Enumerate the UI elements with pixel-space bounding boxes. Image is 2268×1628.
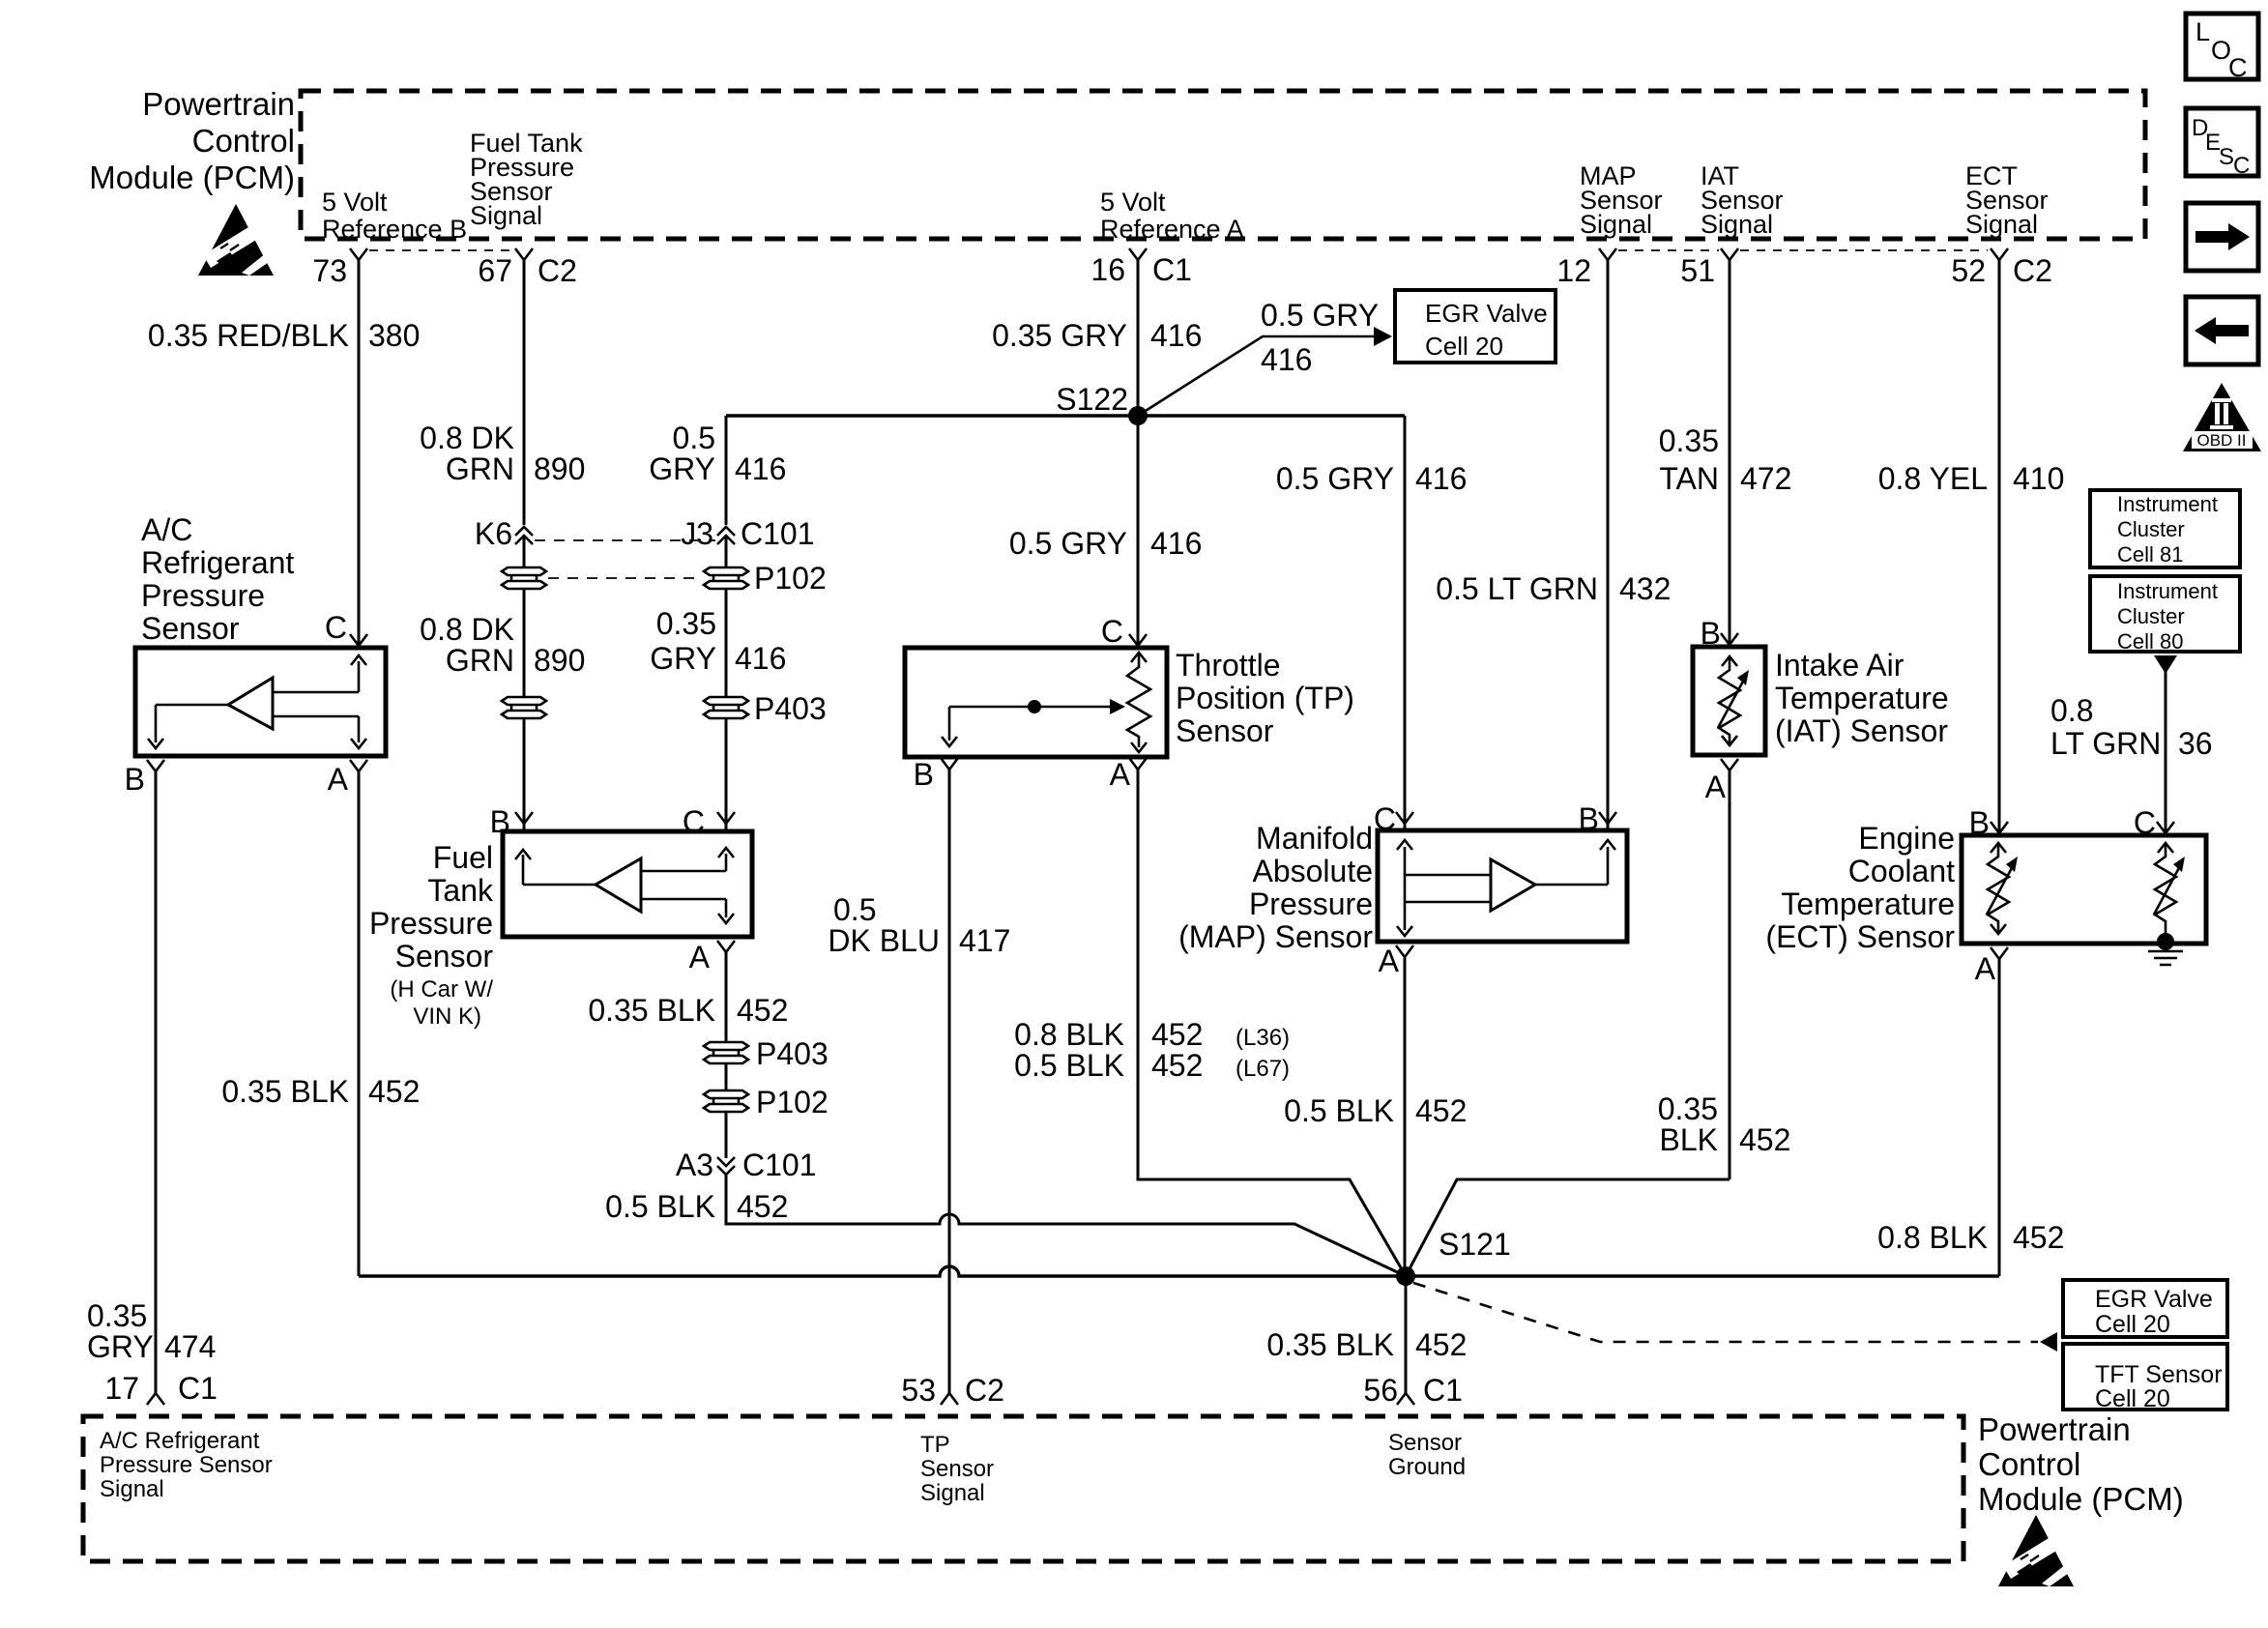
- ESD sensitivity symbol top: [198, 204, 274, 276]
- wire 416 (0.35 GRY, pin 16 to S122): [1137, 260, 1140, 416]
- TP sensor pin C: [1101, 614, 1147, 649]
- svg-text:416: 416: [1150, 318, 1202, 353]
- svg-text:Sensor: Sensor: [141, 611, 240, 646]
- splice P102 (right half): [704, 561, 827, 596]
- EGR Valve Cell 20 box (bottom): [2063, 1280, 2227, 1338]
- svg-text:452: 452: [1415, 1327, 1467, 1362]
- svg-text:Throttle: Throttle: [1176, 648, 1280, 683]
- svg-text:B: B: [1969, 805, 1990, 840]
- svg-text:0.5 BLK: 0.5 BLK: [605, 1189, 715, 1224]
- svg-text:53: 53: [901, 1373, 936, 1408]
- svg-text:5 Volt: 5 Volt: [1100, 188, 1166, 217]
- label: Throttle Position (TP) Sensor: [1176, 648, 1354, 748]
- PCM connector block (bottom, dashed): [83, 1416, 1963, 1561]
- value label 0.35 TAN 472: [1659, 423, 1792, 496]
- svg-text:Instrument: Instrument: [2117, 492, 2218, 516]
- svg-text:17: 17: [104, 1371, 139, 1406]
- wire 452 (0.5 BLK, MAP A to S121): [1404, 957, 1407, 1276]
- svg-text:452: 452: [737, 993, 788, 1028]
- svg-text:Pressure: Pressure: [1249, 887, 1373, 921]
- ESD sensitivity symbol bottom: [1998, 1515, 2074, 1586]
- net label: Sensor Ground: [1388, 1430, 1466, 1480]
- TFT Sensor Cell 20 box: [2063, 1344, 2227, 1412]
- ECT sensor pin C: [2134, 805, 2174, 840]
- Instrument Cluster Cell 81 box: [2090, 490, 2240, 567]
- svg-text:Sensor: Sensor: [920, 1456, 994, 1482]
- svg-text:0.8 BLK: 0.8 BLK: [1877, 1220, 1988, 1255]
- pin 52 C2: [1951, 248, 2052, 288]
- label: Intake Air Temperature (IAT) Sensor: [1775, 648, 1949, 748]
- svg-text:Signal: Signal: [1965, 210, 2038, 239]
- svg-text:452: 452: [1739, 1122, 1790, 1157]
- wire 416 (0.35 GRY) to P403: [725, 589, 728, 697]
- svg-text:73: 73: [312, 253, 347, 288]
- svg-text:Temperature: Temperature: [1775, 681, 1949, 715]
- label: Fuel Tank Pressure Sensor (H Car W/ VIN K): [369, 840, 494, 1030]
- value label 0.8 DK GRN 890 (upper): [420, 421, 585, 486]
- svg-text:C1: C1: [178, 1371, 218, 1406]
- svg-text:C1: C1: [1152, 252, 1192, 287]
- svg-text:B: B: [914, 757, 934, 792]
- svg-text:0.8 BLK: 0.8 BLK: [1014, 1017, 1124, 1052]
- splice S122: [1056, 382, 1148, 425]
- value label 0.35 RED/BLK 380: [148, 318, 421, 353]
- label: A/C Refrigerant Pressure Sensor: [141, 512, 294, 646]
- svg-text:C101: C101: [741, 516, 815, 551]
- wire 452 (0.35 BLK, A/C A down to ground bus): [358, 771, 361, 1276]
- pin 17 C1 (bottom PCM): [104, 1371, 218, 1406]
- svg-text:B: B: [1701, 616, 1721, 651]
- svg-text:P102: P102: [754, 561, 827, 596]
- wire 890 below K6: [523, 538, 526, 567]
- value label 0.5 GRY 416 (right drop): [1276, 461, 1468, 496]
- dashed tie P102 pair: [548, 577, 702, 579]
- svg-text:Refrigerant: Refrigerant: [141, 545, 294, 580]
- label: Powertrain Control Module (PCM) bottom: [1978, 1411, 2184, 1517]
- sidebar LOC button: [2186, 14, 2258, 82]
- svg-text:Ground: Ground: [1388, 1454, 1466, 1480]
- A/C sensor internal amplifier: [148, 655, 366, 748]
- value label 0.35 BLK 452 (sensor ground): [1266, 1327, 1467, 1362]
- value label 0.8 LT GRN 36: [2050, 693, 2213, 761]
- value label 0.35 GRY 474: [87, 1298, 216, 1364]
- svg-text:EGR Valve: EGR Valve: [2095, 1286, 2213, 1313]
- connector C101 terminal A3: [676, 1148, 817, 1182]
- label: Manifold Absolute Pressure (MAP) Sensor: [1178, 821, 1373, 954]
- net label: IAT Sensor Signal: [1701, 161, 1784, 239]
- connector C101 terminal J3: [681, 516, 814, 551]
- svg-text:Signal: Signal: [1701, 210, 1773, 239]
- svg-text:A: A: [1705, 770, 1727, 804]
- svg-text:0.5 LT GRN: 0.5 LT GRN: [1436, 571, 1598, 606]
- Engine Coolant Temperature (ECT) Sensor (component box): [1962, 835, 2206, 944]
- svg-text:Signal: Signal: [470, 201, 542, 230]
- Instrument Cluster Cell 80 box: [2090, 576, 2240, 654]
- svg-text:474: 474: [164, 1329, 216, 1364]
- svg-text:Powertrain: Powertrain: [1978, 1411, 2131, 1447]
- svg-text:VIN K): VIN K): [413, 1003, 481, 1030]
- svg-text:Cell 80: Cell 80: [2117, 629, 2183, 654]
- svg-text:Coolant: Coolant: [1848, 854, 1955, 888]
- svg-text:Intake Air: Intake Air: [1775, 648, 1905, 683]
- svg-text:416: 416: [735, 451, 786, 486]
- svg-text:A: A: [1379, 944, 1400, 978]
- svg-text:A: A: [328, 762, 349, 797]
- svg-text:GRY: GRY: [87, 1329, 154, 1364]
- svg-text:LT GRN: LT GRN: [2050, 726, 2161, 761]
- wire 472 (0.35 TAN, pin 51 to IAT B): [1729, 260, 1731, 647]
- ECT sensor pin B: [1969, 805, 2008, 840]
- svg-text:Pressure Sensor: Pressure Sensor: [100, 1452, 273, 1478]
- svg-text:C2: C2: [2013, 253, 2052, 288]
- wire 890 upper (0.8 DK GRN, pin 67 to C101 K6): [523, 260, 526, 525]
- svg-text:P403: P403: [756, 1036, 829, 1071]
- svg-text:0.5 GRY: 0.5 GRY: [1276, 461, 1394, 496]
- svg-text:0.35: 0.35: [1659, 423, 1719, 458]
- svg-text:C2: C2: [965, 1373, 1004, 1408]
- MAP sensor pin A: [1379, 944, 1413, 978]
- svg-text:Manifold: Manifold: [1256, 821, 1373, 856]
- svg-text:Sensor: Sensor: [1388, 1430, 1462, 1456]
- svg-text:B: B: [125, 762, 145, 797]
- svg-text:Engine: Engine: [1858, 821, 1955, 856]
- svg-text:C2: C2: [538, 253, 577, 288]
- svg-text:GRN: GRN: [446, 643, 514, 678]
- net label: TP Sensor Signal: [920, 1432, 994, 1506]
- value label 0.5 GRY 416 (upper left): [649, 421, 786, 486]
- svg-text:GRY: GRY: [649, 451, 715, 486]
- svg-text:416: 416: [735, 641, 786, 676]
- value label 0.8 BLK 452 (L36): [1014, 1017, 1290, 1052]
- svg-text:0.5 BLK: 0.5 BLK: [1284, 1093, 1394, 1128]
- MAP sensor pin C: [1374, 801, 1413, 836]
- EGR Valve Cell 20 box (top): [1395, 290, 1556, 363]
- svg-text:0.5 BLK: 0.5 BLK: [1014, 1048, 1124, 1083]
- value label 0.8 BLK 452 (ECT): [1877, 1220, 2064, 1255]
- svg-text:DK BLU: DK BLU: [828, 923, 940, 958]
- svg-text:K6: K6: [475, 516, 512, 551]
- value label 0.35 GRY 416: [992, 318, 1202, 353]
- pin 51: [1680, 248, 1738, 288]
- svg-text:GRY: GRY: [650, 641, 716, 676]
- svg-text:C: C: [683, 804, 705, 839]
- MAP sensor internal amplifier: [1397, 840, 1615, 936]
- pin 56 C1 (bottom PCM): [1363, 1373, 1463, 1408]
- svg-text:Cell 20: Cell 20: [2095, 1311, 2170, 1338]
- svg-text:C1: C1: [1423, 1373, 1463, 1408]
- svg-text:OBD II: OBD II: [2196, 431, 2246, 450]
- svg-text:Control: Control: [1978, 1446, 2080, 1482]
- Fuel tank sensor internal amplifier: [515, 848, 734, 923]
- svg-text:L: L: [2195, 17, 2210, 46]
- value label 0.5 LT GRN 432: [1436, 571, 1671, 606]
- Intake Air Temperature (IAT) Sensor (component box): [1693, 647, 1765, 755]
- pin 12: [1556, 248, 1616, 288]
- wire 416 bus S122 horizontal: [726, 414, 1405, 417]
- PCM connector block (top, dashed): [301, 91, 2145, 239]
- svg-text:Sensor: Sensor: [1176, 713, 1274, 748]
- svg-text:EGR Valve: EGR Valve: [1425, 299, 1548, 328]
- svg-text:A: A: [689, 940, 711, 974]
- svg-text:GRN: GRN: [446, 451, 514, 486]
- svg-text:C: C: [2134, 805, 2156, 840]
- svg-text:TAN: TAN: [1659, 461, 1719, 496]
- svg-text:0.5 GRY: 0.5 GRY: [1009, 526, 1127, 561]
- wire 452 (0.35 BLK, S121 to pin 56): [1405, 1276, 1408, 1393]
- svg-text:51: 51: [1680, 253, 1715, 288]
- svg-text:0.35 BLK: 0.35 BLK: [588, 993, 715, 1028]
- value label 0.5 DK BLU 417: [828, 892, 1010, 958]
- value label 0.35 BLK 452 (A/C): [221, 1074, 420, 1109]
- svg-text:Cell 20: Cell 20: [2095, 1385, 2170, 1412]
- svg-text:A/C Refrigerant: A/C Refrigerant: [100, 1428, 260, 1454]
- svg-text:36: 36: [2178, 726, 2213, 761]
- svg-text:A/C: A/C: [141, 512, 192, 547]
- wire 380 (0.35 RED/BLK, pin 73 to A/C sensor C): [358, 260, 361, 648]
- wire 432 (0.5 LT GRN, pin 12 to MAP B): [1607, 260, 1610, 830]
- svg-text:416: 416: [1150, 526, 1202, 561]
- svg-text:Pressure: Pressure: [141, 578, 265, 613]
- connector C101 terminal K6: [475, 516, 533, 551]
- ECT internal thermistor (B side): [1987, 843, 2018, 934]
- svg-text:TFT Sensor: TFT Sensor: [2095, 1361, 2223, 1388]
- value label 0.5 BLK 452 (L67): [1014, 1048, 1290, 1083]
- svg-text:0.35 BLK: 0.35 BLK: [221, 1074, 349, 1109]
- svg-text:(IAT) Sensor: (IAT) Sensor: [1775, 713, 1948, 748]
- svg-text:417: 417: [959, 923, 1010, 958]
- pin 67 C2: [478, 248, 577, 288]
- svg-text:(L36): (L36): [1236, 1025, 1290, 1051]
- svg-text:0.35 RED/BLK: 0.35 RED/BLK: [148, 318, 349, 353]
- svg-text:0.5: 0.5: [833, 892, 876, 927]
- Fuel tank sensor pin B: [490, 804, 533, 839]
- svg-text:416: 416: [1415, 461, 1467, 496]
- svg-text:0.8 YEL: 0.8 YEL: [1878, 461, 1988, 496]
- wire 452 (0.5 BLK) A3 branch to S121: [726, 1173, 1406, 1276]
- svg-text:TP: TP: [920, 1432, 950, 1458]
- IAT sensor internal thermistor: [1718, 656, 1749, 745]
- wire 474 (0.35 GRY, A/C B to pin 17): [155, 771, 158, 1393]
- value label 0.35 BLK 452 (fuel tank): [588, 993, 788, 1028]
- svg-text:Sensor: Sensor: [395, 939, 494, 974]
- svg-text:Instrument: Instrument: [2117, 579, 2218, 603]
- svg-text:380: 380: [368, 318, 420, 353]
- svg-text:452: 452: [1151, 1048, 1203, 1083]
- svg-text:452: 452: [2013, 1220, 2064, 1255]
- wire 452 (0.35 BLK, fuel tank A to C101 A3): [725, 952, 728, 1042]
- svg-text:452: 452: [737, 1189, 788, 1224]
- TP sensor pin A: [1110, 757, 1147, 792]
- net label: 5 Volt Reference B: [322, 188, 467, 244]
- svg-text:Cluster: Cluster: [2117, 517, 2185, 541]
- svg-text:C: C: [2228, 53, 2248, 82]
- svg-text:472: 472: [1740, 461, 1791, 496]
- svg-text:Reference A: Reference A: [1100, 215, 1244, 244]
- svg-text:Signal: Signal: [920, 1480, 985, 1506]
- svg-text:16: 16: [1090, 252, 1125, 287]
- MAP sensor pin B: [1579, 801, 1616, 836]
- wire 416 below J3: [725, 538, 728, 567]
- TP sensor pin B: [914, 757, 958, 792]
- svg-text:(H Car W/: (H Car W/: [390, 976, 493, 1003]
- wire 890 lower (0.8 DK GRN): [523, 589, 526, 697]
- wire 416 branch to EGR Valve (diagonal + arrow): [1138, 327, 1392, 416]
- wire segment to C101 A3: [725, 1112, 728, 1158]
- Fuel Tank Pressure Sensor (component box): [503, 831, 752, 937]
- sidebar next-page arrow button: [2186, 203, 2258, 271]
- sidebar previous-page arrow button: [2186, 297, 2258, 364]
- svg-text:0.35 BLK: 0.35 BLK: [1266, 1327, 1394, 1362]
- svg-text:(L67): (L67): [1236, 1056, 1290, 1082]
- sidebar DESC button: [2186, 108, 2258, 179]
- svg-text:0.8: 0.8: [2050, 693, 2093, 728]
- Manifold Absolute Pressure (MAP) Sensor (component box): [1378, 830, 1627, 942]
- svg-text:Control: Control: [192, 123, 295, 159]
- svg-text:Tank: Tank: [427, 873, 494, 908]
- wire 452 (0.8 BLK, ECT A ground branch): [1998, 959, 2001, 1276]
- wire 416 to fuel tank sensor C: [725, 718, 728, 831]
- svg-text:Absolute: Absolute: [1252, 854, 1373, 888]
- svg-text:Temperature: Temperature: [1781, 887, 1955, 921]
- pin 73 (PCM C2): [312, 248, 367, 288]
- svg-text:C: C: [2233, 153, 2250, 179]
- svg-text:C: C: [1101, 614, 1123, 649]
- svg-text:B: B: [1579, 801, 1599, 836]
- wire 452 (TP A ground branch): [1138, 770, 1406, 1276]
- ECT case ground: [2148, 933, 2183, 965]
- svg-text:67: 67: [478, 253, 512, 288]
- net label: A/C Refrigerant Pressure Sensor Signal: [100, 1428, 273, 1502]
- Throttle Position (TP) Sensor (component box): [905, 648, 1167, 757]
- wire 416 left drop (S122 to C101 J3): [725, 416, 728, 525]
- splice P102 (left half): [502, 567, 546, 589]
- svg-text:C: C: [325, 610, 347, 645]
- splice P403 (lower): [704, 1036, 829, 1071]
- splice (unlabeled, left): [502, 697, 546, 718]
- wire 452 (0.35 BLK, IAT A ground branch): [1406, 770, 1730, 1276]
- svg-text:S: S: [2219, 144, 2234, 170]
- svg-text:0.35: 0.35: [87, 1298, 147, 1333]
- value label 0.35 BLK 452 (IAT): [1658, 1091, 1791, 1157]
- dashed wire to EGR Valve / TFT Sensor cells: [1413, 1283, 2057, 1352]
- svg-text:Pressure: Pressure: [369, 906, 493, 941]
- svg-text:Cell 81: Cell 81: [2117, 542, 2183, 567]
- svg-text:Signal: Signal: [100, 1476, 164, 1502]
- A/C Refrigerant Pressure Sensor (component box): [135, 648, 386, 756]
- svg-text:410: 410: [2013, 461, 2064, 496]
- svg-text:56: 56: [1363, 1373, 1398, 1408]
- IAT sensor pin A: [1705, 759, 1738, 804]
- net label: ECT Sensor Signal: [1965, 161, 2049, 239]
- svg-text:S122: S122: [1056, 382, 1128, 417]
- pin 53 C2 (bottom PCM): [901, 1373, 1004, 1408]
- svg-text:Position (TP): Position (TP): [1176, 681, 1354, 715]
- svg-text:BLK: BLK: [1660, 1122, 1718, 1157]
- svg-text:C101: C101: [742, 1148, 817, 1182]
- svg-text:0.5 GRY: 0.5 GRY: [1261, 298, 1379, 333]
- value label 0.5 BLK 452 (A3 branch): [605, 1189, 788, 1224]
- svg-text:0.35: 0.35: [1658, 1091, 1718, 1126]
- svg-text:416: 416: [1261, 342, 1312, 377]
- svg-text:432: 432: [1619, 571, 1671, 606]
- ECT internal thermistor (C side, to case ground): [2154, 843, 2185, 942]
- wire 416 center drop (S122 to TP C): [1137, 416, 1140, 648]
- svg-text:A3: A3: [676, 1148, 713, 1182]
- value label 0.5 BLK 452 (MAP): [1284, 1093, 1467, 1128]
- wire 36 (0.8 LT GRN, cluster to ECT C): [2165, 672, 2167, 835]
- wire segment: [725, 1063, 728, 1090]
- svg-text:5 Volt: 5 Volt: [322, 188, 388, 217]
- svg-text:Module (PCM): Module (PCM): [1978, 1481, 2184, 1517]
- value label 0.35 GRY 416 (lower): [650, 606, 786, 676]
- ECT sensor pin A: [1975, 947, 2008, 986]
- label: Powertrain Control Module (PCM) top: [89, 86, 295, 195]
- value label 0.5 GRY 416 (EGR branch): [1261, 298, 1379, 377]
- svg-text:890: 890: [534, 451, 585, 486]
- svg-text:52: 52: [1951, 253, 1986, 288]
- svg-text:C: C: [1374, 801, 1396, 836]
- net label: 5 Volt Reference A: [1100, 188, 1244, 244]
- value label 0.8 YEL 410: [1878, 461, 2065, 496]
- svg-text:Fuel: Fuel: [433, 840, 493, 875]
- net label: Fuel Tank Pressure Sensor Signal: [470, 129, 583, 230]
- svg-text:890: 890: [534, 643, 585, 678]
- pin 16 C1: [1090, 248, 1192, 287]
- svg-text:P403: P403: [754, 691, 827, 726]
- label: Engine Coolant Temperature (ECT) Sensor: [1765, 821, 1955, 954]
- dashed tie K6 to J3 (C101): [535, 539, 715, 541]
- svg-text:12: 12: [1556, 253, 1591, 288]
- splice P403: [704, 691, 827, 726]
- OBD II symbol: [2183, 383, 2261, 451]
- wire 410 (0.8 YEL, pin 52 to ECT B): [1998, 260, 2001, 835]
- Fuel tank sensor pin C: [683, 804, 735, 839]
- svg-text:Module (PCM): Module (PCM): [89, 160, 295, 195]
- A/C sensor pin A: [328, 760, 367, 797]
- svg-text:Signal: Signal: [1580, 210, 1652, 239]
- svg-text:(ECT) Sensor: (ECT) Sensor: [1765, 919, 1955, 954]
- svg-text:A: A: [1110, 757, 1131, 792]
- A/C sensor pin B: [125, 760, 164, 797]
- svg-text:P102: P102: [756, 1085, 829, 1119]
- svg-text:452: 452: [1415, 1093, 1467, 1128]
- svg-text:Powertrain: Powertrain: [142, 86, 295, 122]
- svg-text:0.8 DK: 0.8 DK: [420, 421, 514, 455]
- svg-text:J3: J3: [681, 516, 713, 551]
- wire 417 (0.5 DK BLU, TP B to pin 53): [948, 770, 951, 1393]
- wire 416 right drop (S122 to MAP C): [1404, 416, 1407, 830]
- svg-text:Reference B: Reference B: [322, 215, 467, 244]
- svg-text:B: B: [490, 804, 510, 839]
- A/C sensor pin C: [325, 610, 367, 646]
- svg-text:452: 452: [368, 1074, 420, 1109]
- svg-text:S121: S121: [1439, 1227, 1511, 1262]
- svg-text:(MAP) Sensor: (MAP) Sensor: [1178, 919, 1373, 954]
- thin dashed connector face line (top pins): [369, 249, 1988, 251]
- TP sensor internal potentiometer: [942, 653, 1150, 752]
- svg-text:A: A: [1975, 951, 1996, 986]
- wire 890 to fuel tank sensor B: [523, 718, 526, 831]
- net label: MAP Sensor Signal: [1580, 161, 1663, 239]
- svg-text:0.35: 0.35: [656, 606, 716, 641]
- value label 0.5 GRY 416 (center drop): [1009, 526, 1203, 561]
- splice S121: [1396, 1227, 1511, 1286]
- svg-text:Cell 20: Cell 20: [1425, 332, 1503, 361]
- svg-text:0.5: 0.5: [673, 421, 715, 455]
- value label 0.8 DK GRN 890 (lower): [420, 612, 585, 678]
- svg-text:0.35 GRY: 0.35 GRY: [992, 318, 1127, 353]
- off-page arrow from Cell 80: [2154, 655, 2177, 674]
